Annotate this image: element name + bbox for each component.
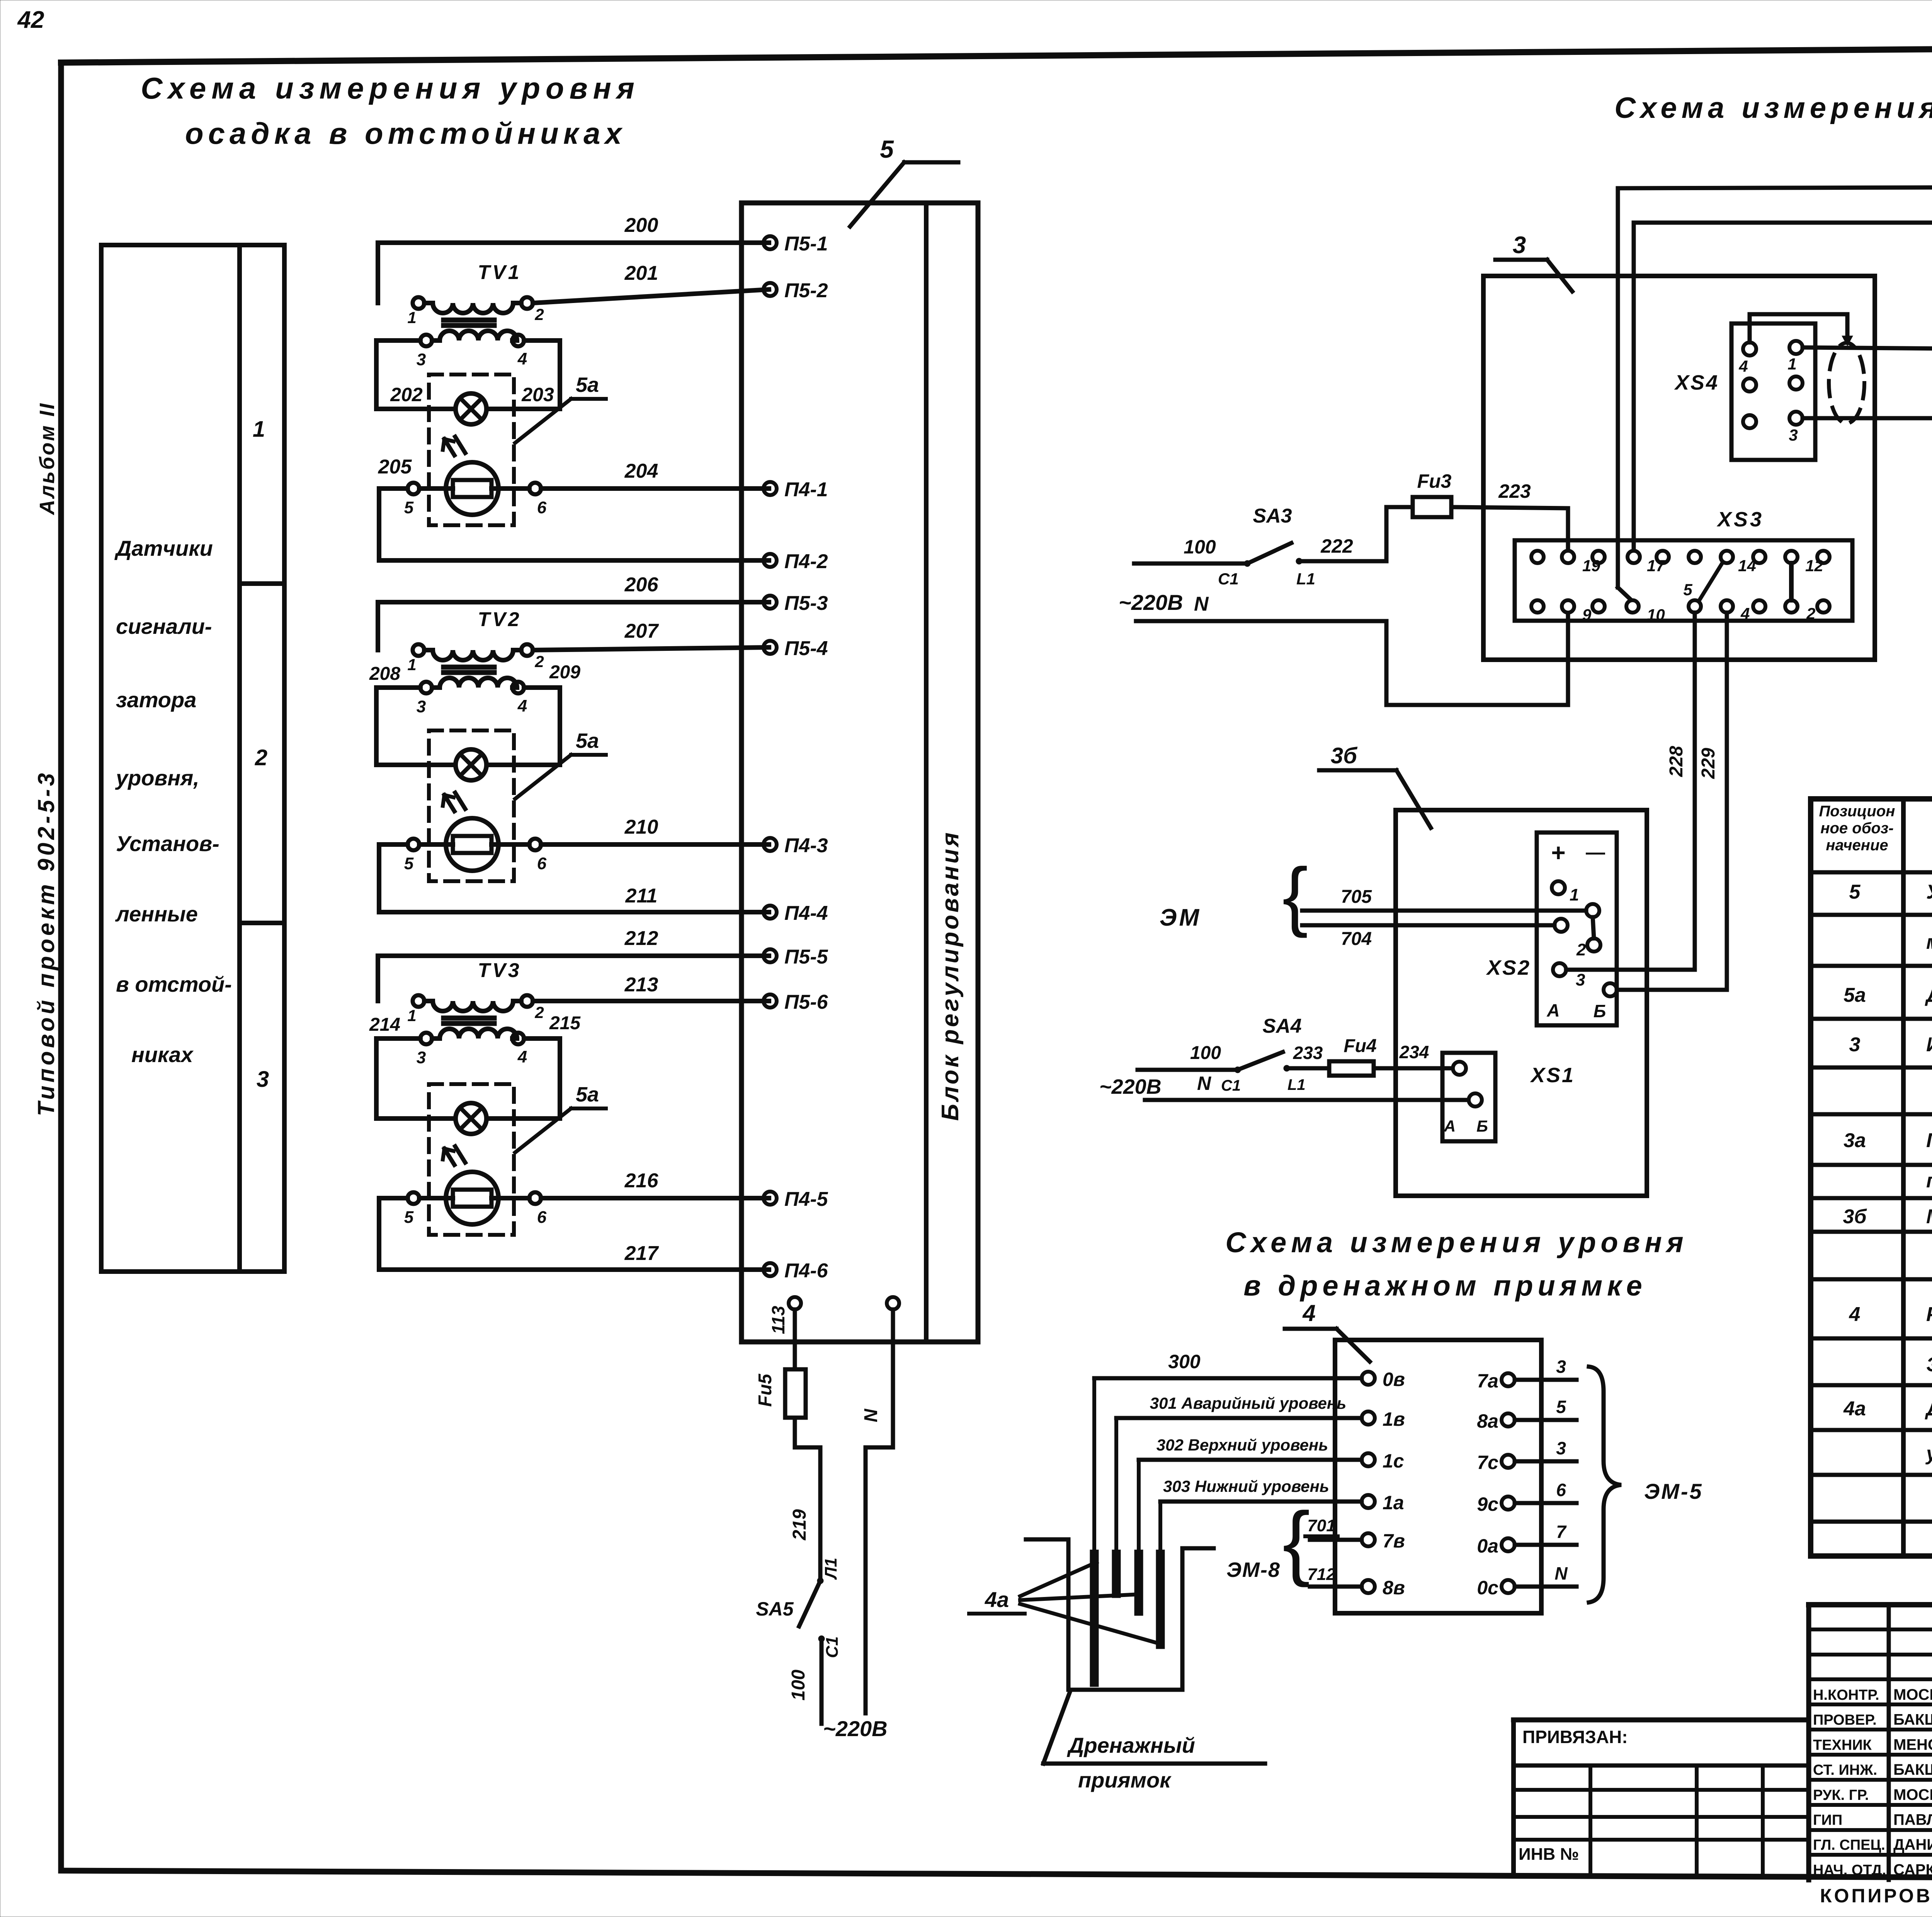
svg-text:П5-4: П5-4 (784, 637, 828, 660)
svg-text:704: 704 (1341, 929, 1372, 949)
svg-text:А: А (1546, 1000, 1560, 1020)
svg-text:НАЧ. ОТД.: НАЧ. ОТД. (1813, 1862, 1886, 1878)
svg-text:3: 3 (1576, 970, 1585, 989)
svg-text:покрытие-полиуретан d=100 мм: покрытие-полиуретан d=100 мм (1926, 1170, 1932, 1192)
svg-text:302 Верхний уровень: 302 Верхний уровень (1156, 1436, 1328, 1454)
svg-text:П4-5: П4-5 (784, 1188, 828, 1210)
svg-text:5: 5 (404, 1208, 414, 1227)
svg-text:Установ-: Установ- (116, 831, 219, 856)
svg-text:6: 6 (1556, 1480, 1566, 1500)
svg-text:6: 6 (537, 854, 547, 873)
svg-text:200: 200 (624, 214, 658, 237)
svg-text:Блок регулирования: Блок регулирования (937, 830, 964, 1121)
svg-text:233: 233 (1293, 1043, 1323, 1063)
svg-text:П4-2: П4-2 (784, 550, 828, 573)
svg-text:3: 3 (257, 1067, 269, 1092)
svg-text:XS2: XS2 (1486, 956, 1531, 979)
svg-text:7: 7 (1556, 1522, 1567, 1542)
svg-text:300: 300 (1168, 1351, 1201, 1372)
svg-text:17: 17 (1647, 557, 1665, 575)
svg-text:2: 2 (534, 305, 544, 323)
svg-text:П5-1: П5-1 (784, 233, 828, 255)
svg-text:П4-1: П4-1 (784, 478, 828, 501)
svg-text:5: 5 (1849, 881, 1861, 903)
svg-text:МЕНОВЩИКОВ: МЕНОВЩИКОВ (1893, 1736, 1932, 1753)
svg-text:3б: 3б (1331, 743, 1358, 768)
svg-text:Л1: Л1 (821, 1558, 840, 1580)
svg-text:5а: 5а (1844, 984, 1866, 1006)
svg-text:8а: 8а (1477, 1410, 1498, 1432)
svg-text:1в: 1в (1383, 1408, 1405, 1430)
svg-text:~220В: ~220В (1099, 1075, 1162, 1098)
svg-text:701: 701 (1307, 1516, 1335, 1535)
svg-text:4а: 4а (1843, 1398, 1866, 1420)
svg-text:5: 5 (1683, 581, 1692, 599)
svg-text:3: 3 (1556, 1357, 1566, 1377)
svg-text:Регулятор-сигнализатор уровня: Регулятор-сигнализатор уровня (1926, 1303, 1932, 1326)
svg-text:Позицион: Позицион (1819, 803, 1895, 820)
svg-text:Fu4: Fu4 (1344, 1036, 1376, 1056)
svg-text:4: 4 (517, 1047, 527, 1066)
svg-text:6: 6 (537, 1208, 547, 1227)
svg-text:10: 10 (1647, 606, 1665, 624)
svg-text:204: 204 (624, 460, 658, 482)
svg-text:1: 1 (1787, 355, 1796, 373)
svg-text:222: 222 (1320, 535, 1353, 557)
svg-text:Fu3: Fu3 (1417, 470, 1452, 492)
svg-text:1а: 1а (1383, 1492, 1404, 1514)
svg-text:приямок: приямок (1078, 1768, 1172, 1792)
svg-text:712: 712 (1307, 1565, 1336, 1584)
svg-text:1с: 1с (1383, 1450, 1404, 1472)
svg-text:Устройство регулирующее: Устройство регулирующее (1926, 881, 1932, 903)
svg-text:9с: 9с (1477, 1493, 1498, 1515)
svg-text:8в: 8в (1383, 1577, 1405, 1599)
svg-text:223: 223 (1498, 480, 1531, 502)
svg-text:5: 5 (404, 854, 414, 873)
svg-text:205: 205 (378, 456, 412, 478)
svg-text:12: 12 (1805, 557, 1823, 575)
svg-text:100: 100 (1184, 536, 1216, 558)
svg-text:Б: Б (1594, 1001, 1606, 1021)
svg-text:ТЕХНИК: ТЕХНИК (1813, 1737, 1872, 1753)
svg-text:3: 3 (1513, 232, 1526, 259)
svg-text:Альбом II: Альбом II (36, 402, 59, 516)
svg-text:ДАНИЛОВ: ДАНИЛОВ (1893, 1836, 1932, 1853)
svg-text:N: N (1197, 1073, 1211, 1094)
svg-text:многоточечное СУ-102: многоточечное СУ-102 (1926, 931, 1932, 953)
svg-text:4: 4 (1302, 1300, 1315, 1326)
svg-text:5а: 5а (576, 373, 599, 397)
svg-text:затора: затора (116, 688, 196, 712)
svg-text:Схема измерения уровня: Схема измерения уровня (1225, 1226, 1688, 1258)
svg-text:П5-3: П5-3 (784, 592, 828, 615)
svg-text:1: 1 (1570, 885, 1579, 904)
svg-text:Fu5: Fu5 (755, 1373, 776, 1407)
svg-text:Дренажный: Дренажный (1067, 1733, 1195, 1757)
svg-text:Н.КОНТР.: Н.КОНТР. (1813, 1687, 1879, 1703)
svg-text:4: 4 (1849, 1303, 1861, 1326)
svg-text:С1: С1 (1221, 1077, 1241, 1094)
svg-text:П4-4: П4-4 (784, 902, 828, 924)
svg-text:0с: 0с (1477, 1577, 1498, 1599)
svg-text:4: 4 (1738, 357, 1748, 375)
svg-text:3б: 3б (1843, 1205, 1867, 1228)
svg-text:С1: С1 (1218, 570, 1239, 588)
svg-text:301 Аварийный уровень: 301 Аварийный уровень (1150, 1394, 1346, 1412)
svg-text:206: 206 (624, 574, 659, 596)
svg-text:3: 3 (417, 1048, 426, 1067)
svg-text:210: 210 (624, 816, 658, 838)
svg-text:Схема измерения уровня: Схема измерения уровня (141, 71, 640, 105)
svg-text:6: 6 (537, 498, 547, 517)
svg-text:N: N (1194, 593, 1209, 615)
svg-text:XS1: XS1 (1530, 1064, 1575, 1087)
svg-text:МОСЕЕНКО: МОСЕЕНКО (1893, 1786, 1932, 1803)
svg-text:7в: 7в (1383, 1530, 1405, 1552)
svg-text:208: 208 (369, 664, 400, 684)
svg-text:ЭМ-5: ЭМ-5 (1644, 1479, 1703, 1503)
svg-text:303 Нижний уровень: 303 Нижний уровень (1163, 1477, 1329, 1495)
svg-text:начение: начение (1826, 837, 1888, 854)
svg-text:SA4: SA4 (1262, 1015, 1301, 1037)
svg-text:3а: 3а (1844, 1129, 1866, 1152)
svg-text:ленные: ленные (115, 902, 198, 926)
svg-text:БАКШЕЕВА: БАКШЕЕВА (1893, 1711, 1932, 1728)
svg-text:0в: 0в (1383, 1369, 1405, 1390)
svg-text:Типовой проект 902-5-3: Типовой проект 902-5-3 (33, 770, 59, 1116)
svg-text:113: 113 (768, 1306, 788, 1334)
svg-text:4: 4 (1740, 604, 1750, 623)
svg-text:А: А (1444, 1117, 1456, 1135)
svg-text:в дренажном приямке: в дренажном приямке (1243, 1270, 1646, 1302)
svg-text:0а: 0а (1477, 1535, 1498, 1557)
svg-text:РУК. ГР.: РУК. ГР. (1813, 1787, 1869, 1803)
svg-text:5: 5 (1556, 1397, 1566, 1417)
svg-text:БАКШЕЕВА: БАКШЕЕВА (1893, 1761, 1932, 1778)
svg-text:4: 4 (517, 696, 527, 715)
svg-text:TV3: TV3 (478, 959, 521, 982)
svg-text:4: 4 (517, 349, 527, 368)
svg-text:2: 2 (1806, 604, 1815, 623)
svg-text:5а: 5а (576, 729, 599, 752)
svg-text:1: 1 (407, 308, 416, 327)
svg-text:ГИП: ГИП (1813, 1812, 1842, 1828)
svg-text:уровня,: уровня, (115, 766, 199, 790)
svg-text:П4-6: П4-6 (784, 1260, 828, 1282)
svg-text:Б: Б (1476, 1117, 1488, 1135)
svg-text:САРКИСЬЯН: САРКИСЬЯН (1893, 1861, 1932, 1878)
svg-text:C1: C1 (823, 1636, 842, 1658)
svg-text:4а: 4а (985, 1587, 1009, 1612)
svg-text:TV1: TV1 (478, 261, 521, 284)
svg-text:КОПИРОВАЛ: ЛОГИНОВА: КОПИРОВАЛ: ЛОГИНОВА (1820, 1885, 1932, 1907)
svg-text:N: N (861, 1408, 881, 1422)
svg-text:7с: 7с (1477, 1452, 1498, 1473)
svg-text:ИНВ №: ИНВ № (1519, 1845, 1579, 1864)
svg-text:П5-2: П5-2 (784, 279, 828, 302)
svg-text:19: 19 (1582, 557, 1600, 575)
svg-text:XS4: XS4 (1674, 371, 1719, 394)
svg-text:7а: 7а (1477, 1370, 1498, 1392)
svg-text:2: 2 (534, 1003, 544, 1021)
svg-text:XS3: XS3 (1716, 508, 1764, 531)
svg-text:—: — (1586, 841, 1605, 863)
svg-text:5: 5 (404, 498, 414, 517)
svg-text:215: 215 (549, 1013, 581, 1033)
svg-text:Миллиамперметр КСУ2- 004: Миллиамперметр КСУ2- 004 (1926, 1205, 1932, 1228)
svg-text:ное обоз-: ное обоз- (1820, 820, 1893, 837)
svg-text:5: 5 (880, 135, 894, 163)
svg-text:уровня ЭРСУ-3 черт № 482 329 5: уровня ЭРСУ-3 черт № 482 329 519 (1925, 1442, 1932, 1465)
svg-text:Схема измерения расхода осадк: Схема измерения расхода осадка (1614, 92, 1932, 124)
svg-text:ПАВЛОВА: ПАВЛОВА (1893, 1811, 1932, 1828)
svg-text:ЭРСУ 3, ТУ25-02 678-76: ЭРСУ 3, ТУ25-02 678-76 (1926, 1353, 1932, 1376)
svg-text:217: 217 (624, 1242, 659, 1265)
svg-text:SA5: SA5 (756, 1598, 794, 1620)
svg-text:211: 211 (625, 885, 658, 907)
svg-text:Индукционный расходомер ИР-51: Индукционный расходомер ИР-51 (1926, 1033, 1932, 1056)
svg-text:3: 3 (1556, 1438, 1566, 1458)
svg-text:100: 100 (788, 1670, 809, 1701)
svg-text:П4-3: П4-3 (784, 834, 828, 857)
svg-text:203: 203 (521, 384, 554, 405)
svg-text:ПРИВЯЗАН:: ПРИВЯЗАН: (1522, 1727, 1628, 1747)
svg-text:N: N (1554, 1563, 1568, 1583)
svg-text:ЭМ-8: ЭМ-8 (1226, 1558, 1281, 1582)
svg-text:202: 202 (390, 384, 423, 405)
svg-text:1: 1 (407, 1006, 416, 1025)
svg-text:100: 100 (1190, 1043, 1221, 1063)
svg-text:214: 214 (369, 1015, 400, 1035)
svg-text:209: 209 (549, 662, 580, 683)
svg-text:2: 2 (1576, 940, 1586, 959)
svg-text:~220В: ~220В (1119, 590, 1183, 615)
svg-text:ПРОВЕР.: ПРОВЕР. (1813, 1712, 1877, 1728)
svg-text:213: 213 (624, 974, 658, 996)
svg-text:219: 219 (789, 1509, 810, 1541)
svg-text:СТ. ИНЖ.: СТ. ИНЖ. (1813, 1762, 1877, 1778)
svg-text:201: 201 (624, 262, 658, 284)
svg-text:207: 207 (624, 620, 659, 642)
svg-text:Датчики: Датчики (114, 536, 213, 560)
svg-text:сигнали-: сигнали- (116, 614, 212, 638)
svg-text:ЭМ: ЭМ (1160, 904, 1201, 931)
svg-text:ГЛ. СПЕЦ.: ГЛ. СПЕЦ. (1813, 1837, 1885, 1853)
svg-text:МОСЕЕНКО: МОСЕЕНКО (1893, 1686, 1932, 1703)
svg-text:3: 3 (417, 697, 426, 716)
svg-text:229: 229 (1698, 748, 1719, 779)
svg-text:{: { (1282, 1495, 1310, 1588)
svg-text:+: + (1551, 839, 1565, 867)
svg-text:5а: 5а (576, 1083, 599, 1106)
svg-text:никах: никах (131, 1042, 194, 1067)
svg-text:1: 1 (253, 417, 265, 442)
svg-text:9: 9 (1582, 606, 1592, 624)
svg-text:TV2: TV2 (478, 608, 521, 631)
svg-text:П5-6: П5-6 (784, 991, 828, 1013)
svg-text:212: 212 (624, 927, 658, 950)
svg-text:3: 3 (1849, 1033, 1861, 1056)
svg-text:2: 2 (255, 745, 267, 770)
svg-text:2: 2 (534, 652, 544, 671)
svg-text:SA3: SA3 (1253, 505, 1292, 527)
svg-text:в отстой-: в отстой- (116, 972, 232, 996)
svg-text:3: 3 (1789, 426, 1798, 444)
svg-text:14: 14 (1738, 557, 1756, 575)
svg-text:234: 234 (1399, 1042, 1429, 1062)
svg-text:~220В: ~220В (823, 1716, 888, 1741)
svg-text:42: 42 (17, 7, 44, 33)
svg-text:228: 228 (1666, 746, 1687, 777)
svg-text:L1: L1 (1296, 570, 1315, 588)
svg-text:3: 3 (417, 350, 426, 369)
svg-text:216: 216 (624, 1170, 659, 1192)
svg-text:осадка в отстойниках: осадка в отстойниках (185, 116, 626, 150)
svg-text:П5-5: П5-5 (784, 946, 828, 968)
svg-text:Преобразователь расходомера: Преобразователь расходомера (1926, 1129, 1932, 1152)
svg-text:1: 1 (407, 655, 416, 674)
svg-text:705: 705 (1341, 887, 1372, 907)
svg-text:L1: L1 (1287, 1076, 1306, 1093)
